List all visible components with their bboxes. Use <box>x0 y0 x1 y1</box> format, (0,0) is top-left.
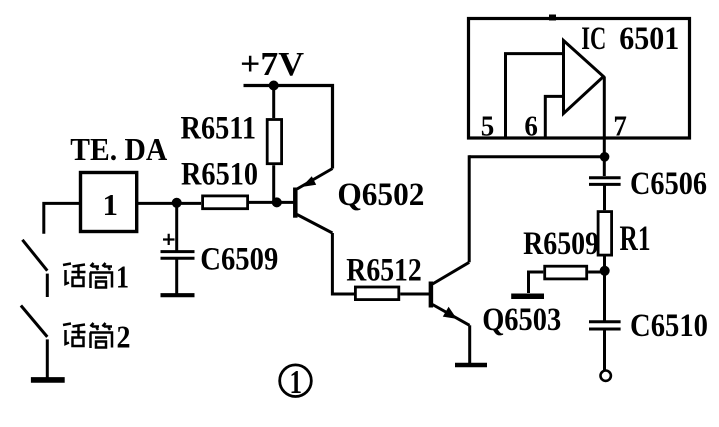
resistor R6510 <box>203 196 248 209</box>
wire R6511 top lead <box>272 86 275 119</box>
svg-text:R6510: R6510 <box>181 157 258 193</box>
svg-text:+7V: +7V <box>240 46 304 83</box>
wire R6511 bottom lead <box>272 165 275 202</box>
figure number 1 (circled) <box>280 364 312 401</box>
pin 7 <box>613 112 627 143</box>
wire R6512 to Q6503 base <box>400 293 429 296</box>
switch 话筒2 blade <box>21 306 47 337</box>
label TE. DA <box>70 131 167 167</box>
label R6509 <box>523 226 599 262</box>
wire R6510 to Q6502 base <box>249 201 294 204</box>
svg-text:5: 5 <box>481 112 495 143</box>
label C6506 <box>630 166 707 202</box>
ground (C6509) <box>161 293 195 297</box>
wire C6509 bottom lead <box>175 258 178 294</box>
label Q6502 <box>337 177 424 213</box>
wire pin 7 lead <box>603 77 606 176</box>
svg-text:1: 1 <box>290 364 303 401</box>
svg-text:R1: R1 <box>620 218 651 258</box>
wire pin7 junction to Q6503 collector <box>469 155 604 158</box>
label Q6503 <box>482 302 561 338</box>
transistor Q6502 <box>295 169 332 234</box>
block TE.DA box <box>81 173 137 232</box>
wire +7V rail <box>244 86 333 169</box>
label C6509 <box>200 242 278 278</box>
svg-text:Q6502: Q6502 <box>337 177 424 213</box>
transistor Q6503 <box>431 262 470 325</box>
label 话筒2 <box>63 323 112 348</box>
wire C6510 top lead <box>603 271 606 322</box>
wire Q6503 emitter to ground <box>468 325 471 363</box>
resistor R6511 <box>267 120 281 164</box>
switch 话筒1 contact <box>46 274 49 297</box>
resistor R6509 <box>545 266 587 279</box>
wire C6506 to R1 <box>603 184 606 210</box>
capacitor C6509 <box>161 252 195 259</box>
svg-text:1: 1 <box>103 187 119 222</box>
wire C6510 bottom lead <box>603 329 606 370</box>
svg-text:IC: IC <box>581 21 606 57</box>
label 话筒1 <box>63 263 112 288</box>
ground (R6509) <box>511 293 544 299</box>
svg-text:R6511: R6511 <box>181 111 257 147</box>
svg-text:C6509: C6509 <box>200 242 278 278</box>
resistor R6512 <box>355 287 398 300</box>
junction +7V/R6511 <box>269 81 279 91</box>
wire R6509 left lead <box>529 272 544 293</box>
label C6510 <box>630 308 708 344</box>
resistor R1 <box>598 212 612 256</box>
label R6511 <box>181 111 257 147</box>
wire Q6503 collector riser <box>468 155 471 262</box>
wire 话筒2 to ground <box>46 339 49 377</box>
svg-text:C6510: C6510 <box>630 308 708 344</box>
svg-text:Q6503: Q6503 <box>482 302 561 338</box>
block IC6501 box <box>469 19 690 139</box>
ground (话筒2) <box>31 377 65 383</box>
ground (Q6503) <box>455 363 487 367</box>
svg-text:6: 6 <box>524 112 538 143</box>
junction pin7 node <box>600 152 610 162</box>
label R6512 <box>346 253 422 289</box>
wire TE.DA right lead <box>137 202 201 205</box>
op-amp U1 (triangle) <box>564 41 604 114</box>
capacitor C6506 <box>589 178 621 185</box>
label R6510 <box>181 157 258 193</box>
svg-text:R6512: R6512 <box>346 253 422 289</box>
wire R1 bottom lead <box>603 257 606 271</box>
pin 6 <box>524 112 538 143</box>
capacitor C6510 <box>589 322 621 329</box>
capacitor C6509 plus sign <box>163 234 175 245</box>
junction TE.DA/R6510/C6509 <box>172 198 182 208</box>
artifact tick on IC box top border <box>549 15 556 21</box>
svg-text:TE. DA: TE. DA <box>70 131 167 167</box>
wire TE.DA left lead <box>44 203 80 233</box>
junction R6510/R6511/base <box>272 197 282 207</box>
label R1 <box>620 218 651 258</box>
wire pin 5 lead <box>506 54 564 138</box>
svg-text:6501: 6501 <box>619 21 679 57</box>
wire Q6502 collector to R6512 <box>332 233 354 294</box>
svg-text:1: 1 <box>116 259 129 295</box>
junction R1/R6509/C6510 <box>600 266 610 276</box>
pin 5 <box>481 112 495 143</box>
svg-text:C6506: C6506 <box>630 166 707 202</box>
svg-text:2: 2 <box>117 319 131 355</box>
wire R6509 right lead <box>588 271 604 274</box>
wire C6509 top lead <box>175 203 178 252</box>
svg-text:R6509: R6509 <box>523 226 599 262</box>
switch 话筒1 blade <box>22 240 47 271</box>
wire pin 6 lead <box>545 96 563 138</box>
node +7V label <box>240 46 304 83</box>
svg-text:7: 7 <box>613 112 627 143</box>
label IC 6501 <box>581 21 679 57</box>
label 1 (inside TE.DA box) <box>103 187 119 222</box>
terminal (output circle) <box>601 371 611 381</box>
